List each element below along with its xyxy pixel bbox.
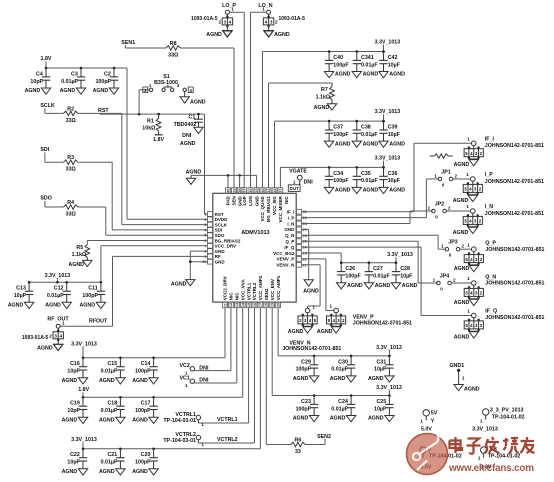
resistor R1 10kohm	[142, 118, 161, 131]
svg-text:C14: C14	[141, 361, 151, 367]
svg-text:AGND: AGND	[99, 469, 115, 475]
svg-text:1: 1	[62, 320, 65, 325]
svg-text:JOHNSON142-0701-851: JOHNSON142-0701-851	[282, 346, 341, 352]
svg-text:AGND: AGND	[303, 289, 319, 295]
jumper JP4	[433, 274, 456, 292]
capacitor C1 TBD0402	[174, 114, 203, 128]
svg-text:3.3V_1013: 3.3V_1013	[472, 426, 498, 432]
wire pin 29 I_P	[302, 179, 440, 218]
svg-text:AGND: AGND	[454, 334, 470, 340]
svg-text:SEN2: SEN2	[264, 288, 269, 300]
svg-text:C25: C25	[376, 399, 386, 405]
svg-text:C23: C23	[301, 399, 311, 405]
svg-text:C2: C2	[104, 71, 111, 77]
svg-text:JP2: JP2	[435, 202, 444, 208]
svg-text:IF_Q: IF_Q	[485, 309, 497, 315]
power 3.3V_1013 env	[376, 345, 402, 356]
svg-text:1093-01A-5: 1093-01A-5	[191, 16, 218, 22]
connector LO_N (1093-01A-5)	[258, 3, 305, 38]
svg-text:TP-104-01-02: TP-104-01-02	[492, 415, 525, 421]
svg-text:AGND: AGND	[79, 303, 95, 309]
capacitor C27 0.01uF	[364, 261, 390, 288]
capacitor C34 100pF	[324, 166, 350, 194]
power 3.3V_1013 mixer	[375, 155, 401, 167]
testpoint GND1	[449, 363, 464, 384]
svg-text:AGND: AGND	[171, 282, 187, 288]
svg-text:VENV_N: VENV_N	[276, 263, 294, 268]
svg-text:DVDD: DVDD	[215, 217, 229, 222]
svg-text:1: 1	[466, 204, 469, 209]
wire VCC_ENV rail	[272, 308, 389, 396]
svg-text:5.0V: 5.0V	[421, 426, 432, 432]
svg-text:32: 32	[273, 188, 277, 192]
svg-text:AGND: AGND	[453, 230, 469, 236]
capacitor C29 100pF	[293, 355, 319, 383]
wire pin 21 VENV_N	[302, 265, 321, 308]
svg-text:RST: RST	[98, 108, 109, 114]
wire R4 to pin 5 SDO	[78, 207, 208, 235]
testpoint VC2 DNI	[179, 363, 208, 376]
svg-text:R2: R2	[67, 106, 74, 112]
wire RST to C1	[197, 113, 200, 119]
node SEN2	[317, 434, 331, 445]
svg-text:C40: C40	[333, 55, 343, 61]
connector IF_I (JOHNSON142-0701-851)	[454, 136, 544, 168]
svg-text:C17: C17	[141, 401, 151, 407]
wire VC1 to pin 13	[194, 308, 236, 383]
wire RST	[100, 113, 205, 115]
wire VCC_MIXER rail	[280, 166, 384, 188]
svg-text:JOHNSON142-0701-851: JOHNSON142-0701-851	[485, 281, 544, 287]
wire VC2 to pin 12	[194, 308, 231, 371]
svg-text:10kΩ: 10kΩ	[142, 126, 156, 132]
capacitor C35 0.01uF	[352, 166, 378, 194]
svg-text:10pF: 10pF	[67, 408, 80, 414]
wire pin 28 I_N	[302, 211, 433, 224]
svg-text:AGND: AGND	[25, 88, 41, 94]
svg-text:SCLK: SCLK	[40, 103, 55, 109]
svg-text:JP1: JP1	[441, 170, 450, 176]
svg-text:1: 1	[478, 456, 481, 461]
svg-text:C31: C31	[376, 359, 386, 365]
svg-text:AGND: AGND	[363, 72, 379, 78]
power 3.3V_1013 drv	[45, 273, 71, 282]
ground R5 AGND	[68, 260, 92, 268]
capacitor C13 10uF	[8, 281, 34, 309]
wire VCC_DRV rail	[29, 246, 207, 284]
svg-text:SDI: SDI	[40, 147, 49, 153]
svg-text:LOP: LOP	[242, 196, 247, 205]
svg-text:19: 19	[271, 303, 275, 307]
svg-text:1: 1	[433, 278, 436, 283]
svg-text:VCC2_DRV: VCC2_DRV	[223, 276, 228, 300]
capacitor C3 0.01uF	[60, 67, 86, 95]
svg-text:VCC_BG: VCC_BG	[272, 196, 277, 215]
svg-text:AGND: AGND	[180, 141, 196, 147]
svg-text:0.01µF: 0.01µF	[101, 460, 118, 466]
svg-text:AGND: AGND	[62, 469, 78, 475]
svg-text:JOHNSON142-0701-851: JOHNSON142-0701-851	[485, 247, 544, 253]
svg-text:AGND: AGND	[293, 376, 309, 382]
label VENV_P	[353, 314, 412, 326]
capacitor C18 0.01uF	[99, 396, 125, 424]
connector RF_OUT (1093-01A-5)	[22, 317, 69, 352]
capacitor C14 100pF	[132, 357, 158, 385]
svg-text:1: 1	[428, 206, 431, 211]
svg-text:VCC_VVA: VCC_VVA	[240, 279, 245, 301]
svg-text:TP-104-03-01: TP-104-03-01	[163, 418, 196, 424]
svg-text:VCC_ENV: VCC_ENV	[270, 279, 275, 300]
capacitor C15 0.01uF	[99, 357, 125, 385]
svg-text:0: 0	[449, 253, 452, 258]
svg-text:40: 40	[226, 188, 230, 192]
svg-text:0: 0	[442, 183, 445, 188]
svg-text:C35: C35	[361, 171, 371, 177]
svg-text:R5: R5	[76, 245, 83, 251]
svg-text:3.3V_1013: 3.3V_1013	[45, 273, 71, 279]
power 3.3V_1013 amp2	[71, 437, 97, 449]
svg-text:NIC: NIC	[229, 292, 234, 301]
svg-text:www.elecfans.com: www.elecfans.com	[448, 463, 534, 474]
svg-text:38: 38	[238, 188, 242, 192]
svg-text:1.1kΩ: 1.1kΩ	[72, 252, 87, 258]
svg-text:AGND: AGND	[363, 188, 379, 194]
svg-text:3.3V_1013: 3.3V_1013	[375, 155, 401, 161]
wire 1.8V rail	[46, 67, 127, 69]
svg-text:VCC_DRV: VCC_DRV	[215, 244, 236, 249]
svg-text:39: 39	[232, 188, 236, 192]
svg-text:VENV_P: VENV_P	[277, 257, 295, 262]
svg-text:100pF: 100pF	[135, 460, 151, 466]
capacitor C42 10pF	[379, 50, 405, 77]
svg-text:AGND: AGND	[288, 329, 304, 335]
resistor R5 1.1kohm	[72, 245, 90, 261]
capacitor C11 100pF	[79, 281, 105, 309]
svg-text:C22: C22	[70, 452, 80, 458]
svg-text:AGND: AGND	[389, 141, 405, 147]
svg-text:AGND: AGND	[68, 262, 84, 268]
svg-text:AGND: AGND	[347, 283, 363, 289]
svg-text:11: 11	[223, 303, 227, 307]
node SCLK	[40, 103, 55, 113]
wire pin 9 RF to RFOUT	[60, 256, 207, 326]
svg-text:AGND: AGND	[375, 283, 391, 289]
svg-text:BG_RBIAS1: BG_RBIAS1	[266, 196, 271, 222]
svg-text:IF_Q: IF_Q	[284, 245, 295, 250]
svg-text:AGND: AGND	[60, 88, 76, 94]
wire R3 to pin 4 SDI	[78, 162, 208, 230]
svg-text:AGND: AGND	[132, 469, 148, 475]
svg-text:C38: C38	[361, 125, 371, 131]
svg-text:AGND: AGND	[8, 303, 24, 309]
svg-text:DNI: DNI	[304, 180, 314, 186]
svg-text:0.01µF: 0.01µF	[331, 367, 348, 373]
testpoint 3_3_PV_1013	[472, 407, 524, 432]
svg-text:TBD0402: TBD0402	[174, 122, 197, 128]
svg-text:C42: C42	[388, 55, 398, 61]
connector LO_P (1093-01A-5)	[191, 3, 236, 38]
svg-text:3: 3	[204, 223, 206, 227]
svg-text:18: 18	[265, 303, 269, 307]
capacitor C37 100pF	[324, 120, 350, 148]
svg-text:BG_RBIAS2: BG_RBIAS2	[215, 238, 241, 243]
svg-text:AGND: AGND	[389, 188, 405, 194]
svg-text:0.01µF: 0.01µF	[361, 132, 378, 138]
svg-text:VCC_MIXER: VCC_MIXER	[278, 195, 283, 222]
wire AGND to top GND pins	[191, 174, 257, 188]
svg-text:VC2: VC2	[179, 363, 189, 369]
svg-text:12: 12	[229, 303, 233, 307]
capacitor C24 0.01uF	[330, 394, 356, 422]
svg-text:ADMV1013: ADMV1013	[241, 230, 269, 236]
svg-text:R7: R7	[321, 87, 328, 93]
svg-text:R8: R8	[170, 41, 177, 47]
wire JP2 to I_N	[446, 210, 470, 212]
svg-text:1: 1	[231, 7, 234, 12]
svg-text:AGND: AGND	[206, 32, 222, 38]
svg-text:LON: LON	[248, 196, 253, 206]
svg-text:3.3V_1013: 3.3V_1013	[376, 345, 402, 351]
resistor unlabeled	[430, 154, 453, 158]
svg-text:I_P: I_P	[485, 172, 493, 178]
power 3.3V_1013 mid	[375, 109, 401, 121]
svg-text:1: 1	[293, 180, 296, 185]
svg-text:33Ω: 33Ω	[168, 53, 179, 59]
svg-text:PAD: PAD	[226, 195, 231, 205]
wire pin 24 IF_Q	[302, 247, 472, 315]
svg-text:3.3V_1013: 3.3V_1013	[387, 252, 413, 258]
capacitor C28 10uF	[391, 261, 417, 288]
svg-text:100pF: 100pF	[296, 367, 312, 373]
wire VCTRL1 to pin 15	[198, 308, 248, 424]
svg-text:I_N: I_N	[485, 204, 493, 210]
svg-text:10pF: 10pF	[67, 460, 80, 466]
svg-text:36: 36	[249, 188, 253, 192]
wire RST to R1	[157, 113, 160, 119]
svg-text:1.8V: 1.8V	[78, 387, 89, 393]
svg-text:0.01µF: 0.01µF	[373, 274, 390, 280]
node RST	[98, 108, 109, 114]
svg-text:35: 35	[255, 188, 259, 192]
svg-text:10pF: 10pF	[30, 79, 43, 85]
svg-text:C1: C1	[189, 114, 196, 120]
svg-text:0: 0	[440, 287, 443, 292]
svg-text:C39: C39	[388, 125, 398, 131]
wire R6 to SEN2	[305, 444, 325, 446]
node DUT box	[288, 185, 300, 192]
svg-text:VCTRL2: VCTRL2	[217, 437, 238, 443]
svg-text:AGND: AGND	[45, 303, 61, 309]
ground R7 AGND	[314, 104, 337, 111]
connector I_P (JOHNSON142-0701-851)	[453, 172, 544, 204]
svg-text:VCC_AMP1: VCC_AMP1	[276, 275, 281, 300]
capacitor C2 100pF	[93, 67, 119, 95]
svg-text:NIC: NIC	[284, 195, 289, 204]
svg-text:C24: C24	[338, 399, 348, 405]
wire pin 27 GND	[302, 229, 309, 279]
svg-text:AGND: AGND	[464, 387, 480, 393]
svg-text:AGND: AGND	[93, 88, 109, 94]
svg-text:33Ω: 33Ω	[66, 212, 77, 218]
capacitor C4 10pF	[25, 67, 51, 95]
svg-text:100pF: 100pF	[333, 132, 349, 138]
svg-text:2: 2	[455, 174, 458, 179]
testpoint 5.5V	[417, 447, 462, 471]
wire VCTRL2 to pin 16	[198, 308, 254, 444]
svg-text:RFOUT: RFOUT	[89, 318, 108, 324]
capacitor C40 100pF	[324, 50, 350, 77]
svg-text:VC1: VC1	[179, 375, 189, 381]
svg-text:3_3_PV_1013: 3_3_PV_1013	[490, 407, 524, 413]
svg-text:10µF: 10µF	[388, 62, 401, 68]
svg-text:C4: C4	[36, 71, 43, 77]
svg-text:JOHNSON142-0701-851: JOHNSON142-0701-851	[485, 179, 544, 185]
svg-text:C18: C18	[107, 401, 117, 407]
wire SCLK to R2	[45, 112, 64, 114]
svg-text:LO_P: LO_P	[222, 3, 236, 9]
svg-text:R6: R6	[295, 438, 302, 444]
svg-text:C28: C28	[400, 266, 410, 272]
svg-text:100pF: 100pF	[95, 79, 111, 85]
capacitor C30 0.01uF	[330, 355, 356, 383]
svg-text:10pF: 10pF	[67, 369, 80, 375]
svg-text:IF_I: IF_I	[287, 210, 295, 215]
svg-text:10µF: 10µF	[374, 406, 387, 412]
svg-text:1.8V: 1.8V	[153, 137, 164, 143]
svg-text:AGND: AGND	[454, 266, 470, 272]
svg-text:Y: Y	[431, 419, 435, 425]
svg-text:C29: C29	[301, 359, 311, 365]
wire SEN1 to R8	[125, 47, 166, 49]
svg-text:3.3V_1013: 3.3V_1013	[375, 109, 401, 115]
svg-text:RF: RF	[215, 254, 221, 259]
svg-text:0.01µF: 0.01µF	[101, 408, 118, 414]
wire pin 6 BG_RBIAS2 to R5	[87, 241, 207, 245]
power 3.3V_1013 top	[375, 39, 401, 51]
svg-text:C27: C27	[373, 266, 383, 272]
svg-text:TP-104-03-01: TP-104-03-01	[163, 438, 196, 444]
svg-text:C20: C20	[141, 452, 151, 458]
svg-text:VCC_BG2: VCC_BG2	[273, 251, 295, 256]
node SDO	[40, 196, 51, 207]
power 3.3V_1013 env2	[376, 385, 402, 396]
wire S1 to ground	[184, 92, 186, 97]
svg-text:3.3V_1013: 3.3V_1013	[376, 385, 402, 391]
ground chip-top AGND	[186, 170, 202, 185]
svg-text:AGND: AGND	[335, 141, 351, 147]
testpoint VC1 DNI	[179, 375, 208, 388]
svg-text:C36: C36	[388, 171, 398, 177]
svg-text:VCTRL2: VCTRL2	[252, 282, 257, 300]
svg-text:DUT: DUT	[290, 186, 299, 191]
wire pin 22 VENV_P	[302, 259, 334, 311]
svg-text:15: 15	[247, 303, 251, 307]
svg-text:10µF: 10µF	[374, 367, 387, 373]
svg-text:DNI: DNI	[182, 133, 192, 139]
svg-text:C34: C34	[333, 171, 343, 177]
wire RST to S1	[138, 90, 150, 116]
svg-text:AGND: AGND	[132, 378, 148, 384]
connector VENV_N (JOHNSON142-0701-851)	[288, 304, 317, 334]
svg-text:C26: C26	[345, 266, 355, 272]
wire LO_N to pin 36 LON	[251, 12, 267, 187]
svg-text:JOHNSON142-0701-851: JOHNSON142-0701-851	[485, 143, 544, 149]
svg-text:0.01µF: 0.01µF	[331, 406, 348, 412]
svg-text:2: 2	[462, 244, 465, 249]
svg-text:I_P: I_P	[288, 215, 295, 220]
svg-text:2: 2	[204, 218, 206, 222]
svg-text:VENV_P: VENV_P	[353, 314, 374, 320]
svg-text:2: 2	[453, 278, 456, 283]
svg-text:VGATE: VGATE	[289, 168, 307, 174]
svg-text:31: 31	[279, 188, 283, 192]
svg-text:SEN: SEN	[232, 196, 237, 205]
svg-text:100pF: 100pF	[333, 178, 349, 184]
svg-text:SEN2: SEN2	[317, 434, 331, 440]
svg-text:R3: R3	[67, 155, 74, 161]
capacitor C341 0.01uF	[352, 50, 378, 77]
power 1.8V at R1	[153, 131, 164, 143]
svg-text:2: 2	[448, 206, 451, 211]
svg-text:100pF: 100pF	[135, 408, 151, 414]
capacitor C31 10uF	[368, 355, 394, 383]
node SDI	[40, 147, 49, 162]
svg-text:Q_N: Q_N	[485, 274, 496, 280]
svg-text:I_N: I_N	[287, 221, 294, 226]
testpoint 5V	[420, 410, 438, 433]
svg-text:10µF: 10µF	[14, 293, 27, 299]
svg-text:TP-104-01-02: TP-104-01-02	[488, 453, 521, 459]
jumper JP3	[441, 240, 464, 258]
connector IF_Q (JOHNSON142-0701-851)	[454, 309, 545, 341]
wire pin 25 Q_N	[302, 241, 438, 283]
svg-text:C12: C12	[54, 286, 64, 292]
svg-text:0.01µF: 0.01µF	[47, 293, 64, 299]
svg-text:GND: GND	[215, 260, 226, 265]
svg-text:B3S-1000: B3S-1000	[154, 80, 178, 86]
svg-text:3.3V_1013: 3.3V_1013	[71, 342, 97, 348]
svg-text:AGND: AGND	[186, 170, 202, 176]
svg-text:1: 1	[441, 244, 444, 249]
connector VENV_P (JOHNSON142-0701-851)	[317, 304, 346, 335]
capacitor C39 10pF	[379, 120, 405, 148]
svg-text:Q_P: Q_P	[485, 241, 496, 247]
svg-text:AGND: AGND	[99, 418, 115, 424]
svg-text:1: 1	[312, 304, 315, 309]
svg-text:AGND: AGND	[132, 418, 148, 424]
wire BG_RBIAS1 to R7	[269, 83, 333, 188]
svg-text:1: 1	[462, 376, 465, 381]
svg-text:C16: C16	[70, 361, 80, 367]
capacitor C19 10pF	[62, 396, 88, 424]
svg-text:GND1: GND1	[449, 363, 464, 369]
svg-text:1: 1	[467, 276, 470, 281]
svg-text:VCC_AMP2: VCC_AMP2	[258, 275, 263, 300]
svg-text:1093-01A-5: 1093-01A-5	[22, 335, 49, 341]
svg-text:AGND: AGND	[314, 105, 330, 111]
svg-text:10µF: 10µF	[388, 132, 401, 138]
svg-text:R1: R1	[147, 119, 154, 125]
capacitor C26 100pF	[337, 261, 363, 288]
svg-text:AGND: AGND	[37, 345, 53, 351]
switch S1 B3S-1000	[143, 74, 193, 93]
wire VCC2_DRV rail	[83, 308, 225, 358]
svg-text:AGND: AGND	[99, 378, 115, 384]
svg-text:C341: C341	[361, 55, 374, 61]
wire VCC_BG2 rail	[302, 253, 397, 263]
capacitor C38 0.01uF	[352, 120, 378, 148]
svg-text:AGND: AGND	[453, 198, 469, 204]
